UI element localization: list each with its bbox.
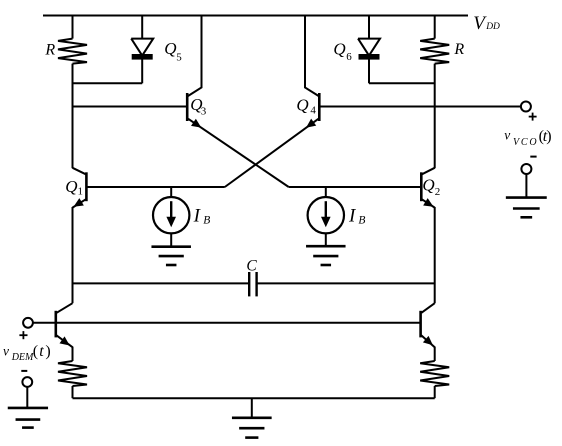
svg-text:B: B (358, 215, 365, 227)
svg-text:Q: Q (296, 96, 308, 115)
svg-text:VCO: VCO (513, 137, 538, 148)
svg-text:Q: Q (164, 39, 176, 58)
svg-text:2: 2 (435, 186, 441, 198)
svg-text:v: v (3, 343, 9, 358)
svg-text:R: R (44, 41, 55, 58)
svg-text:6: 6 (346, 51, 352, 63)
svg-text:4: 4 (310, 104, 316, 116)
svg-text:t: t (39, 343, 44, 360)
svg-text:1: 1 (78, 186, 84, 198)
svg-text:R: R (453, 41, 464, 58)
svg-text:Q: Q (65, 177, 77, 196)
svg-text:C: C (246, 257, 257, 274)
svg-text:5: 5 (176, 51, 182, 63)
svg-text:v: v (504, 127, 510, 142)
svg-text:): ) (546, 128, 551, 145)
svg-text:3: 3 (201, 105, 207, 117)
svg-text:DEM: DEM (11, 352, 34, 363)
svg-text:Q: Q (333, 39, 345, 58)
svg-text:B: B (203, 215, 210, 227)
svg-text:Q: Q (422, 176, 434, 195)
svg-text:(: ( (33, 343, 38, 360)
svg-text:): ) (45, 343, 50, 360)
svg-text:DD: DD (485, 22, 500, 32)
